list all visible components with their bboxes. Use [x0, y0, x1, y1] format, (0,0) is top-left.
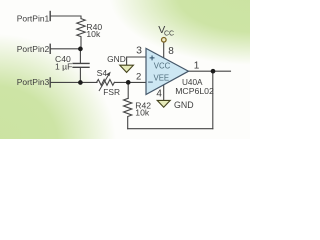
svg-text:2: 2	[136, 71, 141, 82]
terminal PortPin3	[49, 78, 51, 87]
svg-text:GND: GND	[174, 100, 194, 110]
wire pin 8 to VCC terminal	[163, 42, 165, 58]
feedback right wire	[212, 71, 214, 129]
svg-text:FSR: FSR	[103, 87, 120, 97]
svg-text:VEE: VEE	[154, 73, 170, 82]
op-amp minus input mark	[149, 81, 153, 83]
wire PortPin1 to R40	[50, 16, 81, 19]
wire pin 4 to ground	[163, 85, 165, 100]
capacitor C40	[79, 49, 81, 64]
ground symbol at pin 4	[157, 100, 170, 107]
svg-text:3: 3	[136, 45, 142, 57]
wire node B to R42	[127, 82, 129, 98]
resistor R40	[77, 19, 85, 49]
junction node B1	[78, 80, 83, 85]
wire PortPin2 to node A	[50, 48, 80, 50]
junction node A	[78, 47, 83, 52]
VCC terminal circle	[162, 38, 167, 43]
svg-text:VCC: VCC	[154, 62, 171, 71]
terminal PortPin1	[49, 12, 51, 21]
resistor R42	[124, 99, 132, 129]
wire PortPin3 to node B	[50, 81, 97, 83]
svg-text:PortPin2: PortPin2	[17, 44, 50, 54]
svg-text:1: 1	[194, 60, 200, 71]
svg-text:MCP6L02: MCP6L02	[175, 86, 214, 96]
resistor S4 FSR	[97, 80, 115, 86]
op-amp plus input mark	[150, 56, 154, 60]
feedback bottom wire	[128, 128, 213, 130]
svg-text:1 µF: 1 µF	[55, 61, 72, 71]
wire op-amp pin 3 to ground	[127, 57, 146, 65]
svg-text:PortPin1: PortPin1	[17, 14, 50, 24]
svg-text:S4: S4	[97, 68, 108, 78]
svg-text:PortPin3: PortPin3	[17, 77, 50, 87]
svg-text:GND: GND	[107, 54, 126, 64]
junction node C	[211, 69, 216, 74]
svg-text:10k: 10k	[86, 29, 101, 39]
arrow of FSR S4	[99, 75, 108, 91]
svg-text:8: 8	[168, 46, 174, 57]
svg-text:4: 4	[156, 88, 162, 99]
terminal PortPin2	[49, 44, 51, 53]
junction node B2	[126, 80, 131, 85]
ground symbol at pin 3	[120, 65, 134, 72]
svg-text:10k: 10k	[135, 108, 150, 118]
op-amp U40A	[146, 48, 189, 94]
wire FSR to op-amp pin 2	[114, 81, 146, 83]
output wire pin 1	[189, 70, 231, 72]
svg-text:CC: CC	[164, 31, 174, 38]
